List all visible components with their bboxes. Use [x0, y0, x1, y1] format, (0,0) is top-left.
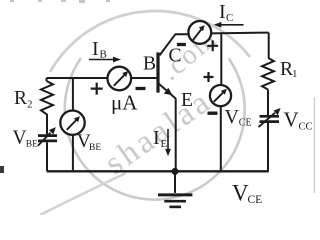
wire right branch upper [268, 33, 270, 58]
wire R1 to VCC [267, 90, 269, 116]
meter VCE voltmeter [210, 85, 231, 106]
svg-text:μA: μA [111, 91, 138, 115]
svg-text:C: C [226, 12, 233, 24]
ground bar 3 [169, 206, 181, 209]
plus sign uA meter [91, 83, 103, 95]
current arrow IC [214, 22, 244, 28]
left edge artifact [0, 166, 4, 173]
wire VBE source to bottom rail [46, 142, 48, 171]
top edge crop marks [10, 0, 110, 3]
current arrow IE [165, 129, 171, 156]
svg-text:1: 1 [292, 68, 298, 80]
VCC source arrow [259, 108, 281, 127]
minus sign IC meter [177, 43, 186, 46]
minus sign VCE meter [208, 111, 218, 114]
transistor emitter with arrow [159, 84, 176, 99]
current arrow IB [89, 57, 121, 63]
meter uA ammeter [108, 67, 132, 91]
junction node emitter-bottom rail [172, 168, 179, 175]
svg-text:CC: CC [299, 122, 313, 133]
svg-text:V: V [13, 127, 27, 148]
watermark ring [65, 58, 245, 200]
ground bar 1 [158, 193, 192, 196]
meter IC ammeter [188, 21, 211, 44]
wire collector diagonal and horizontal [160, 34, 189, 55]
battery VCC variable source bar1 [260, 115, 280, 118]
wire top rail [211, 32, 269, 35]
resistor R1 zigzag [262, 58, 274, 90]
svg-text:BE: BE [89, 143, 101, 153]
svg-text:C: C [169, 46, 182, 67]
ground stub [174, 171, 176, 193]
svg-text:V: V [284, 108, 299, 132]
wire R2 to VBE source [46, 117, 48, 134]
battery VCC variable source bar2 [260, 120, 280, 123]
wire VBE voltmeter branch lower [72, 135, 74, 171]
watermark lower-left swoosh [40, 173, 126, 215]
wire base horizontal left of uA meter [47, 77, 108, 79]
right edge faint line [314, 97, 316, 193]
svg-text:CE: CE [239, 118, 252, 129]
wire VBE voltmeter branch upper [72, 78, 74, 111]
ground bar 2 [164, 200, 186, 203]
wire VCE meter branch lower [220, 106, 222, 171]
transistor base bar [156, 52, 159, 92]
svg-text:V: V [232, 181, 249, 206]
wire base horizontal right of uA meter [131, 77, 157, 79]
battery VBE variable source bar1 [38, 134, 57, 137]
meter VBE voltmeter [60, 111, 84, 135]
wire VCE meter branch upper [220, 33, 222, 85]
minus sign uA meter [136, 87, 146, 90]
resistor R2 zigzag [41, 81, 53, 117]
wire R2 top stub [46, 78, 48, 81]
svg-text:B: B [100, 49, 107, 61]
watermark big top arc [50, 11, 250, 72]
svg-text:R: R [14, 88, 27, 109]
plus sign VCE meter [204, 72, 214, 82]
svg-text:I: I [153, 127, 160, 149]
VBE source arrow [38, 127, 56, 146]
svg-text:CE: CE [248, 194, 263, 206]
plus sign IC meter [207, 40, 218, 51]
svg-text:2: 2 [27, 99, 33, 111]
svg-text:I: I [92, 38, 99, 60]
wire VCC to bottom rail [267, 123, 269, 171]
svg-text:B: B [143, 54, 156, 75]
battery VBE variable source bar2 [38, 140, 57, 143]
wire emitter vertical [175, 98, 177, 171]
svg-text:BE: BE [26, 140, 38, 150]
wire bottom rail [47, 170, 269, 172]
svg-text:E: E [181, 90, 193, 111]
svg-text:E: E [161, 138, 168, 150]
svg-text:V: V [225, 106, 240, 128]
svg-text:I: I [219, 1, 226, 23]
